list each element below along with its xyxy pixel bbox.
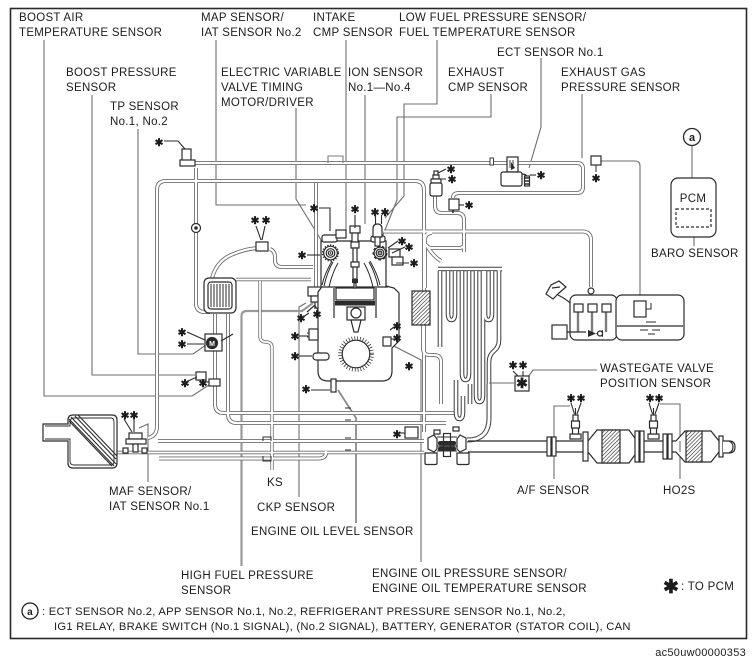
- svg-text:ENGINE OIL LEVEL SENSOR: ENGINE OIL LEVEL SENSOR: [251, 526, 414, 538]
- wire MAF outlet duct to turbo: [158, 439, 424, 443]
- svg-text:PCM: PCM: [680, 193, 706, 205]
- svg-text:POSITION SENSOR: POSITION SENSOR: [600, 378, 711, 390]
- leader circled a to PCM: [691, 146, 693, 178]
- svg-text:: ECT SENSOR No.2, APP SENSOR: : ECT SENSOR No.2, APP SENSOR No.1, No.2…: [42, 606, 566, 618]
- svg-text:ECT SENSOR No.1: ECT SENSOR No.1: [497, 47, 604, 59]
- leader A/F sensor: [554, 406, 570, 479]
- wire EGR pipe hatched cooler to y232 run: [425, 233, 432, 288]
- svg-text:✱: ✱: [465, 200, 474, 212]
- valve on charge pipe: [192, 224, 201, 233]
- svg-text:a: a: [689, 132, 696, 144]
- svg-text:✱: ✱: [592, 173, 601, 185]
- canister (exhaust gas pressure pickup): [634, 301, 646, 317]
- leader low fuel pressure sensor: [385, 40, 437, 218]
- leader ECT sensor No.1: [529, 58, 541, 168]
- leader intake CMP sensor: [345, 40, 347, 231]
- svg-text:ENGINE OIL TEMPERATURE SENSOR: ENGINE OIL TEMPERATURE SENSOR: [372, 583, 587, 595]
- MAF sensor assembly: [123, 433, 147, 453]
- svg-text:SENSOR: SENSOR: [181, 585, 231, 597]
- svg-text:✱: ✱: [262, 215, 271, 227]
- svg-text:✱: ✱: [519, 360, 528, 372]
- svg-text:MAP SENSOR/: MAP SENSOR/: [201, 12, 284, 24]
- sensor square on thin line top right: [591, 156, 601, 165]
- leader engine oil level sensor: [338, 390, 356, 523]
- intake horn left: [322, 261, 338, 287]
- svg-text:IAT SENSOR No.1: IAT SENSOR No.1: [109, 501, 210, 513]
- wire top pipe run y163 with drop to fuel line y193: [194, 163, 583, 198]
- pipe joint ticks: [263, 408, 351, 461]
- svg-text:CMP SENSOR: CMP SENSOR: [313, 27, 393, 39]
- svg-text:INTAKE: INTAKE: [313, 12, 356, 24]
- fitting ring on pipe to oil pan: [588, 288, 594, 294]
- svg-text:LOW FUEL PRESSURE SENSOR/: LOW FUEL PRESSURE SENSOR/: [399, 12, 587, 24]
- svg-text:HIGH FUEL PRESSURE: HIGH FUEL PRESSURE: [181, 570, 314, 582]
- leader CKP sensor: [299, 303, 306, 497]
- svg-text:No.1—No.4: No.1—No.4: [348, 82, 411, 94]
- boost air temperature sensor (top left pipe): [180, 149, 195, 166]
- intake horn right: [364, 261, 380, 287]
- wire thin hose from exhaust-gas sensor to engine canister: [489, 161, 640, 383]
- svg-text:FUEL TEMPERATURE SENSOR: FUEL TEMPERATURE SENSOR: [399, 27, 576, 39]
- throttle body with motor: [205, 334, 233, 351]
- notch on top pipe: [328, 156, 343, 163]
- leader ION sensor: [364, 95, 366, 224]
- head right side brackets: [389, 249, 403, 265]
- leader high fuel pressure sensor: [242, 303, 314, 566]
- shutoff valve bowtie: [588, 330, 603, 337]
- svg-text:SENSOR: SENSOR: [66, 82, 116, 94]
- wire pipe inner cores (white): [117, 163, 591, 470]
- camshaft gear right (exhaust CMP): [371, 236, 387, 260]
- A/F sensor boss: [570, 408, 581, 439]
- leader engine oil pressure/temperature sensor: [390, 344, 421, 562]
- svg-text:TP SENSOR: TP SENSOR: [110, 101, 179, 113]
- svg-text:✱: ✱: [291, 331, 300, 343]
- high pressure fuel pump on manifold: [307, 287, 323, 312]
- catalytic converter 1: [588, 430, 637, 463]
- wire EGR cooler to lower band: [423, 325, 441, 404]
- svg-text:EXHAUST: EXHAUST: [448, 67, 504, 79]
- leader BARO sensor: [693, 228, 695, 246]
- svg-text:HO2S: HO2S: [663, 485, 696, 497]
- leader MAF sensor: [139, 424, 148, 482]
- svg-text:✱: ✱: [297, 313, 306, 325]
- HO2S boss: [648, 408, 659, 439]
- svg-text:A/F SENSOR: A/F SENSOR: [517, 485, 590, 497]
- leader TP sensor: [138, 129, 206, 354]
- svg-text:ELECTRIC VARIABLE: ELECTRIC VARIABLE: [221, 67, 342, 79]
- footnote circled a: [22, 603, 38, 619]
- wire charge pipe from boost air temp sensor down to intercooler: [196, 168, 210, 312]
- svg-text:✱: ✱: [351, 204, 360, 216]
- svg-text:✱: ✱: [178, 327, 187, 339]
- svg-text:VALVE TIMING: VALVE TIMING: [221, 82, 303, 94]
- svg-text:a: a: [27, 607, 33, 618]
- pipe from turbo to first cat: [468, 441, 556, 452]
- wire lower duct: [159, 451, 326, 459]
- three stub ports: [578, 311, 606, 332]
- svg-text:✱: ✱: [310, 203, 319, 215]
- leader HO2S: [660, 404, 680, 479]
- wire serpentine top-left connector: [427, 246, 441, 261]
- svg-text:PRESSURE SENSOR: PRESSURE SENSOR: [561, 82, 681, 94]
- svg-text:✱: ✱: [516, 375, 528, 391]
- svg-text:✱: ✱: [199, 378, 208, 390]
- svg-text:✱: ✱: [646, 393, 655, 405]
- wire intercooler S-pipe to intake manifold: [212, 248, 313, 278]
- svg-text:✱: ✱: [302, 384, 311, 396]
- wastegate valve position sensor box: [515, 375, 529, 391]
- intercooler: [204, 278, 236, 313]
- svg-text:KS: KS: [267, 477, 283, 489]
- tail pipe: [723, 441, 735, 453]
- svg-text:ION SENSOR: ION SENSOR: [348, 67, 423, 79]
- leader boost air temperature sensor: [44, 40, 209, 396]
- engine bottom-right: oil pan and cooler assembly: [546, 281, 684, 340]
- ECT sensor thermostat housing: [501, 157, 530, 186]
- small box left with link: [552, 325, 567, 339]
- leader boost pressure sensor: [92, 95, 195, 375]
- fitting on block left: [313, 353, 329, 360]
- svg-text:✱: ✱: [181, 378, 190, 390]
- exhaust system: [468, 408, 735, 463]
- leader MAP sensor: [216, 40, 306, 205]
- svg-text:✱: ✱: [448, 174, 457, 186]
- svg-text:M: M: [209, 341, 215, 348]
- ignition coil / spark plug center: [350, 226, 360, 288]
- deck line: [321, 286, 388, 288]
- KS box on block left: [309, 329, 318, 340]
- catalytic converter 2: [676, 431, 719, 462]
- svg-text:BOOST PRESSURE: BOOST PRESSURE: [66, 67, 177, 79]
- svg-text:✱: ✱: [291, 351, 300, 363]
- PCM box: [671, 129, 716, 238]
- svg-text:✱: ✱: [405, 242, 414, 254]
- svg-text:ENGINE OIL PRESSURE SENSOR/: ENGINE OIL PRESSURE SENSOR/: [372, 568, 567, 580]
- leader wastegate sensor: [528, 370, 597, 377]
- svg-text:✱: ✱: [393, 429, 402, 441]
- svg-text:TEMPERATURE SENSOR: TEMPERATURE SENSOR: [19, 27, 162, 39]
- svg-text:✱: ✱: [251, 215, 260, 227]
- leader exhaust gas pressure sensor: [581, 94, 583, 158]
- wire intercooler down pipe 1 to horizontal y413: [215, 314, 455, 413]
- piston and cylinder: [334, 288, 376, 318]
- wire serpentine exhaust heat exchanger: [438, 269, 502, 419]
- svg-text:BARO SENSOR: BARO SENSOR: [651, 248, 739, 260]
- svg-text:BOOST AIR: BOOST AIR: [19, 12, 83, 24]
- turbocharger: [425, 384, 489, 465]
- svg-text:No.1, No.2: No.1, No.2: [110, 116, 168, 128]
- wire serpentine inner core (white): [438, 269, 502, 419]
- wire hose drop to KS: [260, 281, 272, 470]
- svg-text:CKP SENSOR: CKP SENSOR: [257, 502, 335, 514]
- engine block: [318, 241, 399, 381]
- wire fuel sensor drop: [435, 196, 464, 252]
- joint tick on top pipe: [490, 158, 494, 165]
- svg-text:✱: ✱: [509, 360, 518, 372]
- low fuel pressure / fuel temperature sensor cylinder: [430, 171, 442, 196]
- svg-text:: TO PCM: : TO PCM: [681, 581, 734, 593]
- mid pipe: [644, 441, 676, 452]
- wire asterisk connector stems: [124, 141, 659, 433]
- svg-text:✱: ✱: [410, 258, 419, 270]
- wire fuel line continues below square sensor: [384, 232, 591, 288]
- wire outer loop pipe air cleaner to turbo: [148, 181, 424, 438]
- svg-text:WASTEGATE VALVE: WASTEGATE VALVE: [600, 363, 714, 375]
- oil dipstick bottom left: [331, 379, 336, 392]
- svg-text:IAT SENSOR No.2: IAT SENSOR No.2: [201, 27, 302, 39]
- flange before cat 1: [583, 432, 588, 461]
- sensor pair box on intercooler S-pipe: [256, 242, 268, 251]
- svg-text:MAF SENSOR/: MAF SENSOR/: [109, 486, 192, 498]
- svg-text:✱: ✱: [155, 137, 164, 149]
- boost air temp sensor (charge pipe) fitting: [209, 379, 220, 386]
- svg-text:✱: ✱: [537, 170, 546, 182]
- svg-text:✱: ✱: [405, 361, 414, 373]
- svg-text:ac50uw00000353: ac50uw00000353: [655, 647, 746, 659]
- camshaft gear left (EVVT): [322, 230, 346, 261]
- svg-text:EXHAUST GAS: EXHAUST GAS: [561, 67, 646, 79]
- wastegate pipe elbow into turbo: [467, 384, 489, 440]
- crankshaft: [340, 338, 372, 370]
- svg-text:✱: ✱: [298, 250, 307, 262]
- air cleaner assembly: [43, 415, 117, 468]
- svg-text:CMP SENSOR: CMP SENSOR: [448, 82, 528, 94]
- oil level dashes: [640, 322, 667, 334]
- svg-text:✱: ✱: [178, 339, 187, 351]
- svg-text:✱: ✱: [313, 309, 322, 321]
- wire hose intercooler to engine y279: [236, 278, 311, 281]
- square sensor on fuel line y193: [449, 199, 459, 213]
- oil pressure/temperature sensor on block right: [383, 337, 391, 346]
- leader electric VVT motor: [296, 108, 326, 248]
- leader exhaust CMP sensor: [381, 94, 491, 240]
- wire fuel return elbow to downpipe junction: [426, 244, 464, 248]
- svg-text:IG1 RELAY, BRAKE SWITCH (No.1: IG1 RELAY, BRAKE SWITCH (No.1 SIGNAL), (…: [54, 621, 631, 633]
- boost pressure sensor box: [196, 372, 206, 380]
- wire intercooler down pipe 2 to horizontal y423: [228, 314, 446, 423]
- svg-text:MOTOR/DRIVER: MOTOR/DRIVER: [221, 97, 314, 109]
- hatched EGR cooler block: [412, 291, 430, 325]
- injector / fuel rail sensor right of coil: [373, 224, 382, 246]
- compressor inlet sensor on duct: [405, 427, 418, 438]
- svg-text:✱: ✱: [663, 577, 679, 598]
